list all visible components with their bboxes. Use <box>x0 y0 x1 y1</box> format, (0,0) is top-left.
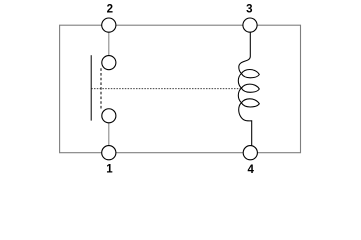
coil loop 3 <box>241 99 259 107</box>
lower contact point <box>102 109 116 123</box>
armature blade <box>90 55 92 120</box>
terminal 4 <box>243 146 257 160</box>
coil loop 1 <box>241 70 259 78</box>
wire terminal 2 to upper contact <box>108 32 110 55</box>
terminal 1 <box>102 146 116 160</box>
upper contact point <box>102 56 116 70</box>
svg-text:1: 1 <box>106 163 113 175</box>
terminal 3 <box>243 18 257 32</box>
wire lower contact to terminal 1 <box>108 123 110 146</box>
relay case outline <box>60 25 301 153</box>
dashed link horizontal (blade to coil) <box>91 88 242 90</box>
svg-text:3: 3 <box>246 4 252 16</box>
terminal 2 <box>102 18 116 32</box>
dashed link vertical (between contacts) <box>100 68 102 109</box>
svg-text:2: 2 <box>107 3 113 15</box>
coil spine <box>238 32 251 145</box>
coil loop 2 <box>241 84 259 92</box>
svg-text:4: 4 <box>247 164 254 176</box>
